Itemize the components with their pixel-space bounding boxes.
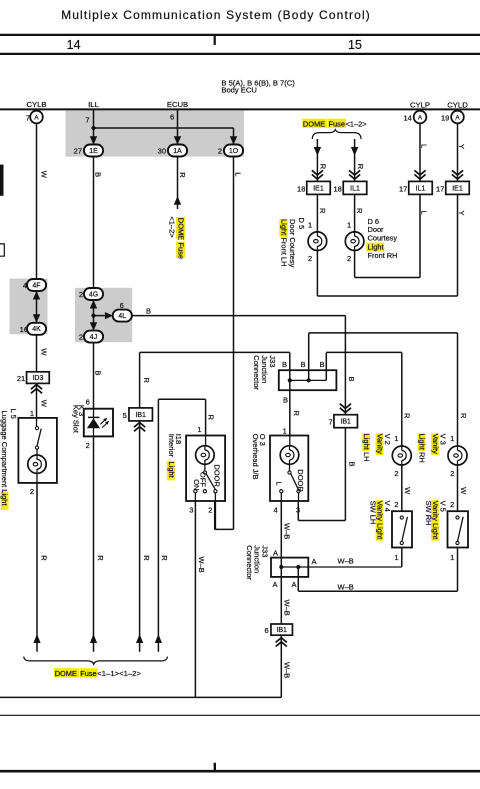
svg-text:2: 2 — [347, 254, 351, 263]
svg-text:CYLD: CYLD — [447, 100, 468, 109]
J33 lower bus to V4 — [281, 566, 402, 568]
svg-text:R: R — [318, 208, 327, 214]
brace DOME fuse — [312, 130, 361, 139]
svg-text:DOOR: DOOR — [213, 464, 222, 487]
overhead JB O3 box — [270, 436, 308, 502]
pin 7 CYLB circle A — [30, 111, 43, 124]
svg-text:5: 5 — [123, 411, 127, 420]
svg-text:A: A — [273, 548, 278, 557]
svg-text:R: R — [356, 164, 365, 170]
luggage compartment light L5 box — [18, 418, 57, 483]
svg-text:Light RH: Light RH — [418, 434, 427, 463]
svg-text:1E: 1E — [89, 148, 98, 155]
svg-text:Body ECU: Body ECU — [221, 86, 256, 95]
svg-text:<1–2>: <1–2> — [346, 119, 367, 128]
interior light I18 box — [186, 436, 225, 502]
body ECU internal shade — [66, 111, 245, 157]
svg-text:DOOR: DOOR — [296, 469, 305, 492]
wire IL1 to D6 pin1 — [354, 194, 356, 232]
pin 19 CYLD circle A — [451, 111, 464, 124]
ground bus wire — [0, 696, 281, 698]
svg-text:A: A — [312, 557, 317, 566]
wire internal bus 1E to 1O — [94, 127, 234, 129]
header tick — [214, 36, 216, 46]
header top border — [0, 34, 480, 36]
svg-text:Connector: Connector — [252, 355, 261, 390]
svg-text:W: W — [39, 348, 48, 356]
svg-text:6: 6 — [265, 626, 269, 635]
connector 4J — [84, 331, 103, 343]
left edge box fragment — [0, 244, 4, 256]
chevron into IE1 18 — [312, 170, 323, 175]
wire ID3 to luggage light — [36, 396, 38, 418]
arrow on dome wire right — [351, 147, 358, 156]
door courtesy light front RH D6 — [345, 232, 364, 251]
svg-text:7: 7 — [26, 114, 30, 123]
svg-text:Light LH: Light LH — [362, 434, 371, 462]
svg-text:6: 6 — [170, 112, 174, 121]
arrow to DOME fuse from L5 — [33, 634, 40, 643]
junction IE1 pin17 — [446, 181, 470, 194]
J33 lower box — [271, 558, 308, 577]
wire O3 pin4 W-B down — [280, 501, 282, 567]
wire ILL pin7 to 1E — [93, 109, 95, 145]
arrow into 4L — [105, 312, 113, 319]
svg-text:IL1: IL1 — [350, 185, 360, 192]
wire I18 pin2 to L wire — [214, 501, 216, 529]
svg-text:IE1: IE1 — [313, 185, 324, 192]
svg-text:2: 2 — [218, 146, 222, 155]
arrow into 1E — [90, 136, 97, 145]
svg-text:1O: 1O — [229, 148, 239, 155]
svg-text:L: L — [233, 172, 242, 176]
chevron into IL1 17 — [414, 170, 425, 175]
svg-text:ECUB: ECUB — [167, 100, 188, 109]
wire interior light pin1 feed — [158, 398, 205, 400]
svg-text:16: 16 — [20, 325, 28, 334]
svg-text:4F: 4F — [32, 282, 40, 289]
svg-text:DOME Fuse: DOME Fuse — [177, 218, 186, 259]
svg-text:2: 2 — [394, 469, 398, 478]
svg-text:W–B: W–B — [197, 557, 206, 573]
svg-text:2: 2 — [30, 487, 34, 496]
svg-text:Light: Light — [167, 462, 176, 479]
svg-text:B: B — [283, 396, 288, 405]
wire 1O L down to interior light — [233, 157, 235, 530]
svg-text:17: 17 — [399, 184, 407, 193]
svg-text:4: 4 — [23, 281, 27, 290]
I18 pins — [194, 493, 196, 501]
svg-text:B: B — [94, 172, 103, 177]
svg-text:1: 1 — [197, 425, 201, 434]
svg-text:ILL: ILL — [88, 100, 99, 109]
I18 switch — [204, 464, 206, 471]
arrow into 4G — [90, 300, 97, 309]
svg-text:R: R — [318, 164, 327, 170]
svg-text:L 5: L 5 — [9, 409, 18, 419]
svg-text:CYLB: CYLB — [26, 100, 46, 109]
connector 4G — [84, 288, 103, 300]
svg-text:W–B: W–B — [338, 556, 354, 565]
svg-text:IE1: IE1 — [452, 185, 463, 192]
svg-text:W–B: W–B — [282, 523, 291, 539]
svg-text:18: 18 — [297, 184, 305, 193]
brace DOME fuse bottom — [24, 657, 168, 665]
svg-text:2: 2 — [450, 500, 454, 509]
O3 pins — [280, 493, 282, 501]
svg-text:1A: 1A — [173, 148, 182, 155]
connector 4K — [27, 323, 46, 335]
wire 4K to ID3 — [36, 335, 38, 372]
connector 1E — [84, 145, 103, 157]
connector 1O — [224, 145, 243, 157]
svg-text:L: L — [419, 211, 428, 215]
arrow into 4K — [33, 314, 40, 323]
svg-text:27: 27 — [74, 146, 82, 155]
wire IB1 6 to ground bus — [280, 650, 282, 697]
svg-text:Vanity: Vanity — [375, 434, 384, 455]
svg-text:R: R — [40, 555, 49, 561]
svg-text:B: B — [300, 360, 305, 369]
svg-text:3: 3 — [189, 505, 193, 514]
svg-text:L: L — [274, 482, 283, 486]
svg-text:2: 2 — [79, 290, 83, 299]
svg-text:Y: Y — [457, 144, 466, 149]
junction IL1 pin17 — [409, 181, 433, 194]
svg-text:L: L — [419, 144, 428, 148]
svg-text:21: 21 — [17, 374, 25, 383]
wire IE1 17 down to D5 junction — [457, 194, 459, 296]
svg-text:W: W — [403, 487, 412, 495]
svg-text:R: R — [160, 555, 169, 561]
wire CYLB W down to 4F — [36, 123, 38, 279]
svg-text:W–B: W–B — [282, 600, 291, 616]
svg-text:IB1: IB1 — [135, 412, 146, 419]
svg-text:Y: Y — [457, 211, 466, 216]
O3 switch — [289, 464, 291, 471]
arrow into 4J — [90, 322, 97, 331]
svg-text:R: R — [292, 411, 301, 417]
svg-text:IL1: IL1 — [416, 185, 426, 192]
wire dome fuse to IL1 — [354, 139, 356, 182]
O3 bulb — [289, 436, 291, 447]
svg-text:W–B: W–B — [282, 662, 291, 678]
svg-text:4L: 4L — [118, 313, 126, 320]
arrow into 1O — [230, 136, 237, 145]
svg-text:Vanity: Vanity — [431, 434, 440, 455]
svg-text:15: 15 — [348, 38, 362, 52]
wire 4J to key slot — [93, 343, 95, 409]
wire J33 to IB1 6 — [280, 567, 282, 624]
svg-text:W: W — [40, 171, 49, 179]
wire J33 to IB1 5 — [140, 351, 290, 353]
svg-text:Fuse: Fuse — [329, 119, 345, 128]
key slot K3 box — [84, 409, 113, 437]
svg-text:CYLP: CYLP — [410, 100, 430, 109]
svg-text:R: R — [142, 378, 151, 384]
L5 switch — [36, 418, 38, 427]
wire L5 pin2 down — [36, 473, 38, 483]
svg-text:B: B — [319, 360, 324, 369]
arrow to DOME fuse from I18 — [155, 634, 162, 643]
node ILL junction — [91, 126, 95, 130]
arrow to DOME fuse from IB1 5 — [136, 634, 143, 643]
svg-text:2: 2 — [208, 505, 212, 514]
svg-text:14: 14 — [403, 114, 411, 123]
svg-text:Light Front LH: Light Front LH — [279, 219, 288, 267]
svg-text:4G: 4G — [89, 291, 98, 298]
wire CYLD to IE1 17 — [457, 123, 459, 181]
wire 1A stub R — [177, 157, 179, 210]
connector 1A — [168, 145, 187, 157]
wire branch to 4L — [94, 315, 106, 317]
L5 bulb — [36, 449, 38, 455]
svg-text:7: 7 — [85, 115, 89, 124]
svg-text:14: 14 — [67, 38, 81, 52]
svg-text:R: R — [178, 172, 187, 178]
pin 14 CYLP circle A — [414, 111, 427, 124]
svg-text:B: B — [282, 360, 287, 369]
luggage compartment light name — [1, 491, 9, 510]
connector 4L — [113, 310, 132, 322]
svg-text:Luggage Compartment Light: Luggage Compartment Light — [0, 411, 9, 507]
wire J33 mid pin to V3 — [308, 333, 310, 381]
node 4G branch — [91, 314, 95, 318]
J33 internal bus — [290, 379, 327, 381]
svg-text:1: 1 — [347, 221, 351, 230]
svg-text:2: 2 — [450, 469, 454, 478]
svg-text:R: R — [355, 208, 364, 214]
wire O3 pin3 to IB1 7 wire — [297, 501, 299, 521]
wire J33 to V5 W-B — [297, 567, 299, 591]
svg-text:4J: 4J — [90, 334, 97, 341]
chevron below IB1 6 — [280, 635, 282, 650]
svg-text:W: W — [39, 400, 48, 408]
wire IB1 7 down to overhead JB pin3 — [344, 428, 346, 521]
wire 1E to 4G wire B — [93, 157, 95, 289]
svg-text:1: 1 — [283, 426, 287, 435]
wire 4F to 4K — [36, 285, 38, 329]
wire J33 right pin to V2 — [325, 352, 327, 380]
body ECU boundary — [0, 108, 480, 110]
arrow into 4F — [33, 291, 40, 300]
K3 LED — [93, 409, 95, 437]
svg-text:19: 19 — [441, 114, 449, 123]
svg-text:DOME: DOME — [303, 119, 325, 128]
junction IB1 pin7 — [334, 415, 358, 428]
svg-text:DOME: DOME — [55, 669, 77, 678]
svg-text:Courtesy: Courtesy — [368, 233, 398, 242]
svg-text:SW LH: SW LH — [368, 501, 377, 525]
svg-text:B: B — [93, 371, 102, 376]
left edge connector fragment — [0, 165, 4, 196]
wire V3 to V5 — [457, 465, 459, 511]
DOME fuse label — [302, 119, 327, 128]
svg-text:<1–1><1–2>: <1–1><1–2> — [97, 669, 141, 678]
svg-text:ID3: ID3 — [32, 375, 43, 382]
svg-text:IB1: IB1 — [340, 419, 351, 426]
wire V4 pin1 to J33 bus — [401, 548, 403, 567]
svg-text:2: 2 — [86, 441, 90, 450]
svg-text:2: 2 — [394, 500, 398, 509]
svg-text:ON: ON — [192, 479, 201, 490]
chevron below IB1 5 — [139, 421, 141, 434]
wire V2 to V4 — [401, 465, 403, 511]
wire IB1 5 down to DOME fuse — [139, 434, 141, 652]
junction IB1 pin6 — [271, 624, 293, 635]
DOME fuse bottom label — [54, 668, 79, 677]
svg-text:4: 4 — [274, 505, 278, 514]
wire ECUB pin6 to 1A — [177, 109, 179, 145]
chevron into IB1 7 — [340, 404, 351, 409]
svg-text:R: R — [142, 555, 151, 561]
chevron into IE1 17 — [452, 170, 463, 175]
svg-text:<1–2>: <1–2> — [167, 216, 176, 238]
svg-text:W: W — [459, 487, 468, 495]
svg-text:A: A — [272, 580, 277, 589]
shade 4G 4J 4L — [75, 288, 132, 342]
svg-text:B: B — [347, 377, 356, 382]
svg-text:1: 1 — [394, 553, 398, 562]
svg-text:Front RH: Front RH — [368, 251, 398, 260]
junction IE1 pin18 — [307, 181, 331, 194]
svg-text:SW RH: SW RH — [424, 501, 433, 526]
arrow into 1A — [174, 136, 181, 145]
footer thin border — [0, 714, 480, 716]
svg-text:6: 6 — [120, 301, 124, 310]
DOME fuse reference label — [176, 217, 185, 239]
svg-text:2: 2 — [79, 333, 83, 342]
svg-text:1: 1 — [30, 409, 34, 418]
footer thick border — [0, 770, 480, 773]
wire down into I18 pin1 — [205, 399, 207, 435]
junction IL1 pin18 — [343, 181, 367, 194]
svg-text:2: 2 — [308, 254, 312, 263]
svg-text:18: 18 — [333, 184, 341, 193]
arrow to DOME fuse from K3 — [90, 634, 97, 643]
svg-text:Interior: Interior — [167, 434, 176, 458]
wire I18 pin3 ground W-B — [194, 501, 196, 697]
wire IE1 to D5 pin1 — [316, 194, 318, 232]
connector 4F — [27, 279, 46, 291]
svg-text:R: R — [402, 413, 411, 419]
J33 upper box — [279, 370, 337, 390]
svg-text:Overhead J/B: Overhead J/B — [251, 434, 260, 480]
svg-text:R: R — [459, 413, 468, 419]
svg-text:4K: 4K — [32, 326, 41, 333]
door courtesy light front LH D5 — [308, 232, 327, 251]
svg-text:B: B — [347, 462, 356, 467]
wire J33 down to overhead JB pin1 — [289, 380, 291, 435]
wire CYLP to IL1 17 — [419, 123, 421, 181]
svg-text:R: R — [96, 555, 105, 561]
svg-text:A: A — [291, 580, 296, 589]
svg-text:7: 7 — [329, 418, 333, 427]
svg-text:1: 1 — [394, 434, 398, 443]
svg-text:Key Slot: Key Slot — [72, 405, 81, 434]
svg-text:1: 1 — [450, 553, 454, 562]
wire IL1 17 down to D6 junction — [419, 194, 421, 277]
svg-text:1: 1 — [308, 221, 312, 230]
shade 4F 4K — [10, 279, 48, 335]
junction IB1 pin5 — [129, 408, 153, 421]
junction ID3 — [27, 372, 50, 384]
svg-text:B: B — [146, 306, 151, 315]
svg-text:R: R — [207, 415, 216, 421]
arrow on dome wire left — [314, 147, 321, 156]
wire dome fuse to IE1 — [316, 139, 318, 182]
wire 4G to 4J — [93, 294, 95, 337]
arrow up on 1A wire — [174, 196, 181, 205]
svg-text:30: 30 — [158, 146, 166, 155]
I18 bulb — [205, 436, 207, 447]
svg-text:IB1: IB1 — [276, 627, 287, 634]
wire V5 pin1 down — [457, 548, 459, 592]
svg-text:Fuse: Fuse — [80, 669, 96, 678]
svg-text:Multiplex Communication System: Multiplex Communication System (Body Con… — [61, 8, 371, 22]
chevron below ID3 — [36, 383, 38, 396]
chevron into IL1 18 — [349, 170, 360, 175]
svg-text:D 5: D 5 — [297, 218, 306, 230]
wire 4L B to IB1 7 — [132, 315, 346, 317]
svg-text:1: 1 — [450, 434, 454, 443]
svg-text:W–B: W–B — [338, 582, 354, 591]
footer tick — [214, 763, 216, 771]
svg-text:17: 17 — [436, 184, 444, 193]
header bottom border — [0, 53, 480, 55]
svg-text:Connector: Connector — [245, 545, 254, 580]
